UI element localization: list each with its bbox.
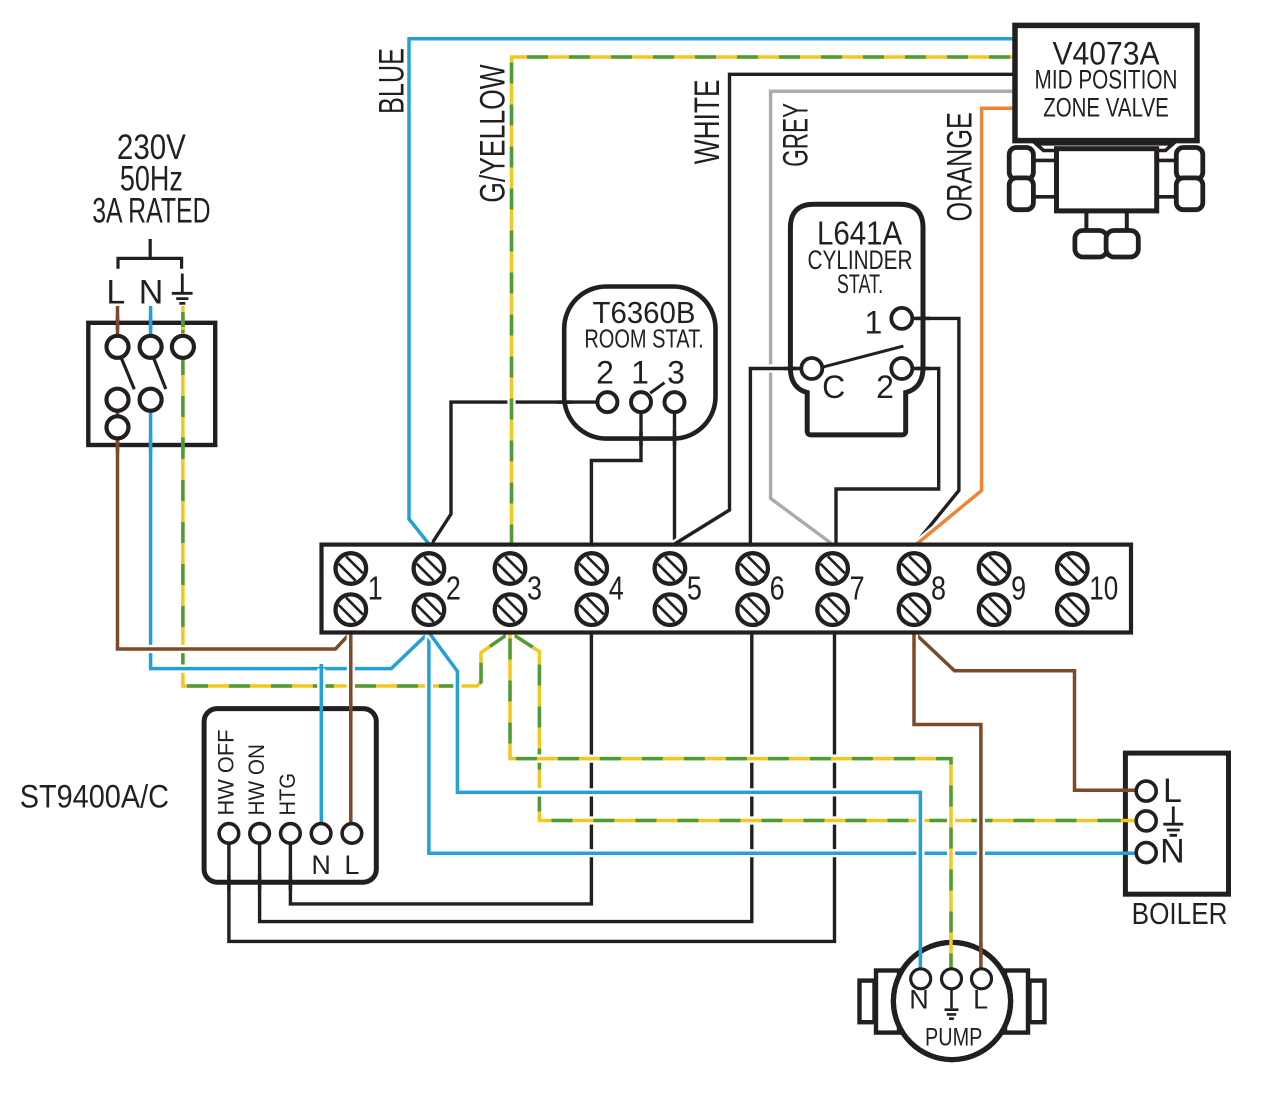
svg-text:C: C [822,369,845,405]
svg-text:1: 1 [368,570,383,607]
svg-text:HW OFF: HW OFF [213,730,238,816]
svg-text:BOILER: BOILER [1132,896,1228,931]
svg-text:6: 6 [770,570,785,607]
svg-text:1: 1 [865,304,883,340]
svg-text:9: 9 [1011,570,1026,607]
svg-text:G/YELLOW: G/YELLOW [474,64,513,202]
svg-text:3A RATED: 3A RATED [92,191,210,230]
svg-text:ST9400A/C: ST9400A/C [20,779,169,815]
svg-text:N: N [139,274,164,312]
svg-text:GREY: GREY [777,103,816,167]
svg-text:WHITE: WHITE [688,79,727,164]
svg-text:5: 5 [687,570,702,607]
svg-text:L: L [106,274,125,312]
svg-text:BLUE: BLUE [372,48,411,114]
svg-text:8: 8 [931,570,946,607]
svg-text:N: N [311,850,331,880]
svg-text:PUMP: PUMP [925,1024,982,1052]
svg-text:STAT.: STAT. [837,269,883,299]
svg-text:2: 2 [596,354,614,390]
svg-text:7: 7 [850,570,865,607]
svg-text:1: 1 [631,354,649,390]
svg-text:ZONE VALVE: ZONE VALVE [1043,92,1169,122]
svg-text:L: L [1163,772,1182,810]
svg-text:HTG: HTG [275,773,300,816]
svg-text:2: 2 [446,570,461,607]
svg-text:MID POSITION: MID POSITION [1035,65,1178,95]
svg-text:ORANGE: ORANGE [941,112,980,221]
svg-text:10: 10 [1089,570,1118,607]
svg-text:L: L [344,850,359,880]
svg-text:HW ON: HW ON [244,744,269,816]
svg-text:ROOM STAT.: ROOM STAT. [584,326,703,354]
svg-text:N: N [1160,833,1185,871]
svg-text:4: 4 [609,570,624,607]
svg-text:3: 3 [527,570,542,607]
svg-text:3: 3 [667,354,685,390]
